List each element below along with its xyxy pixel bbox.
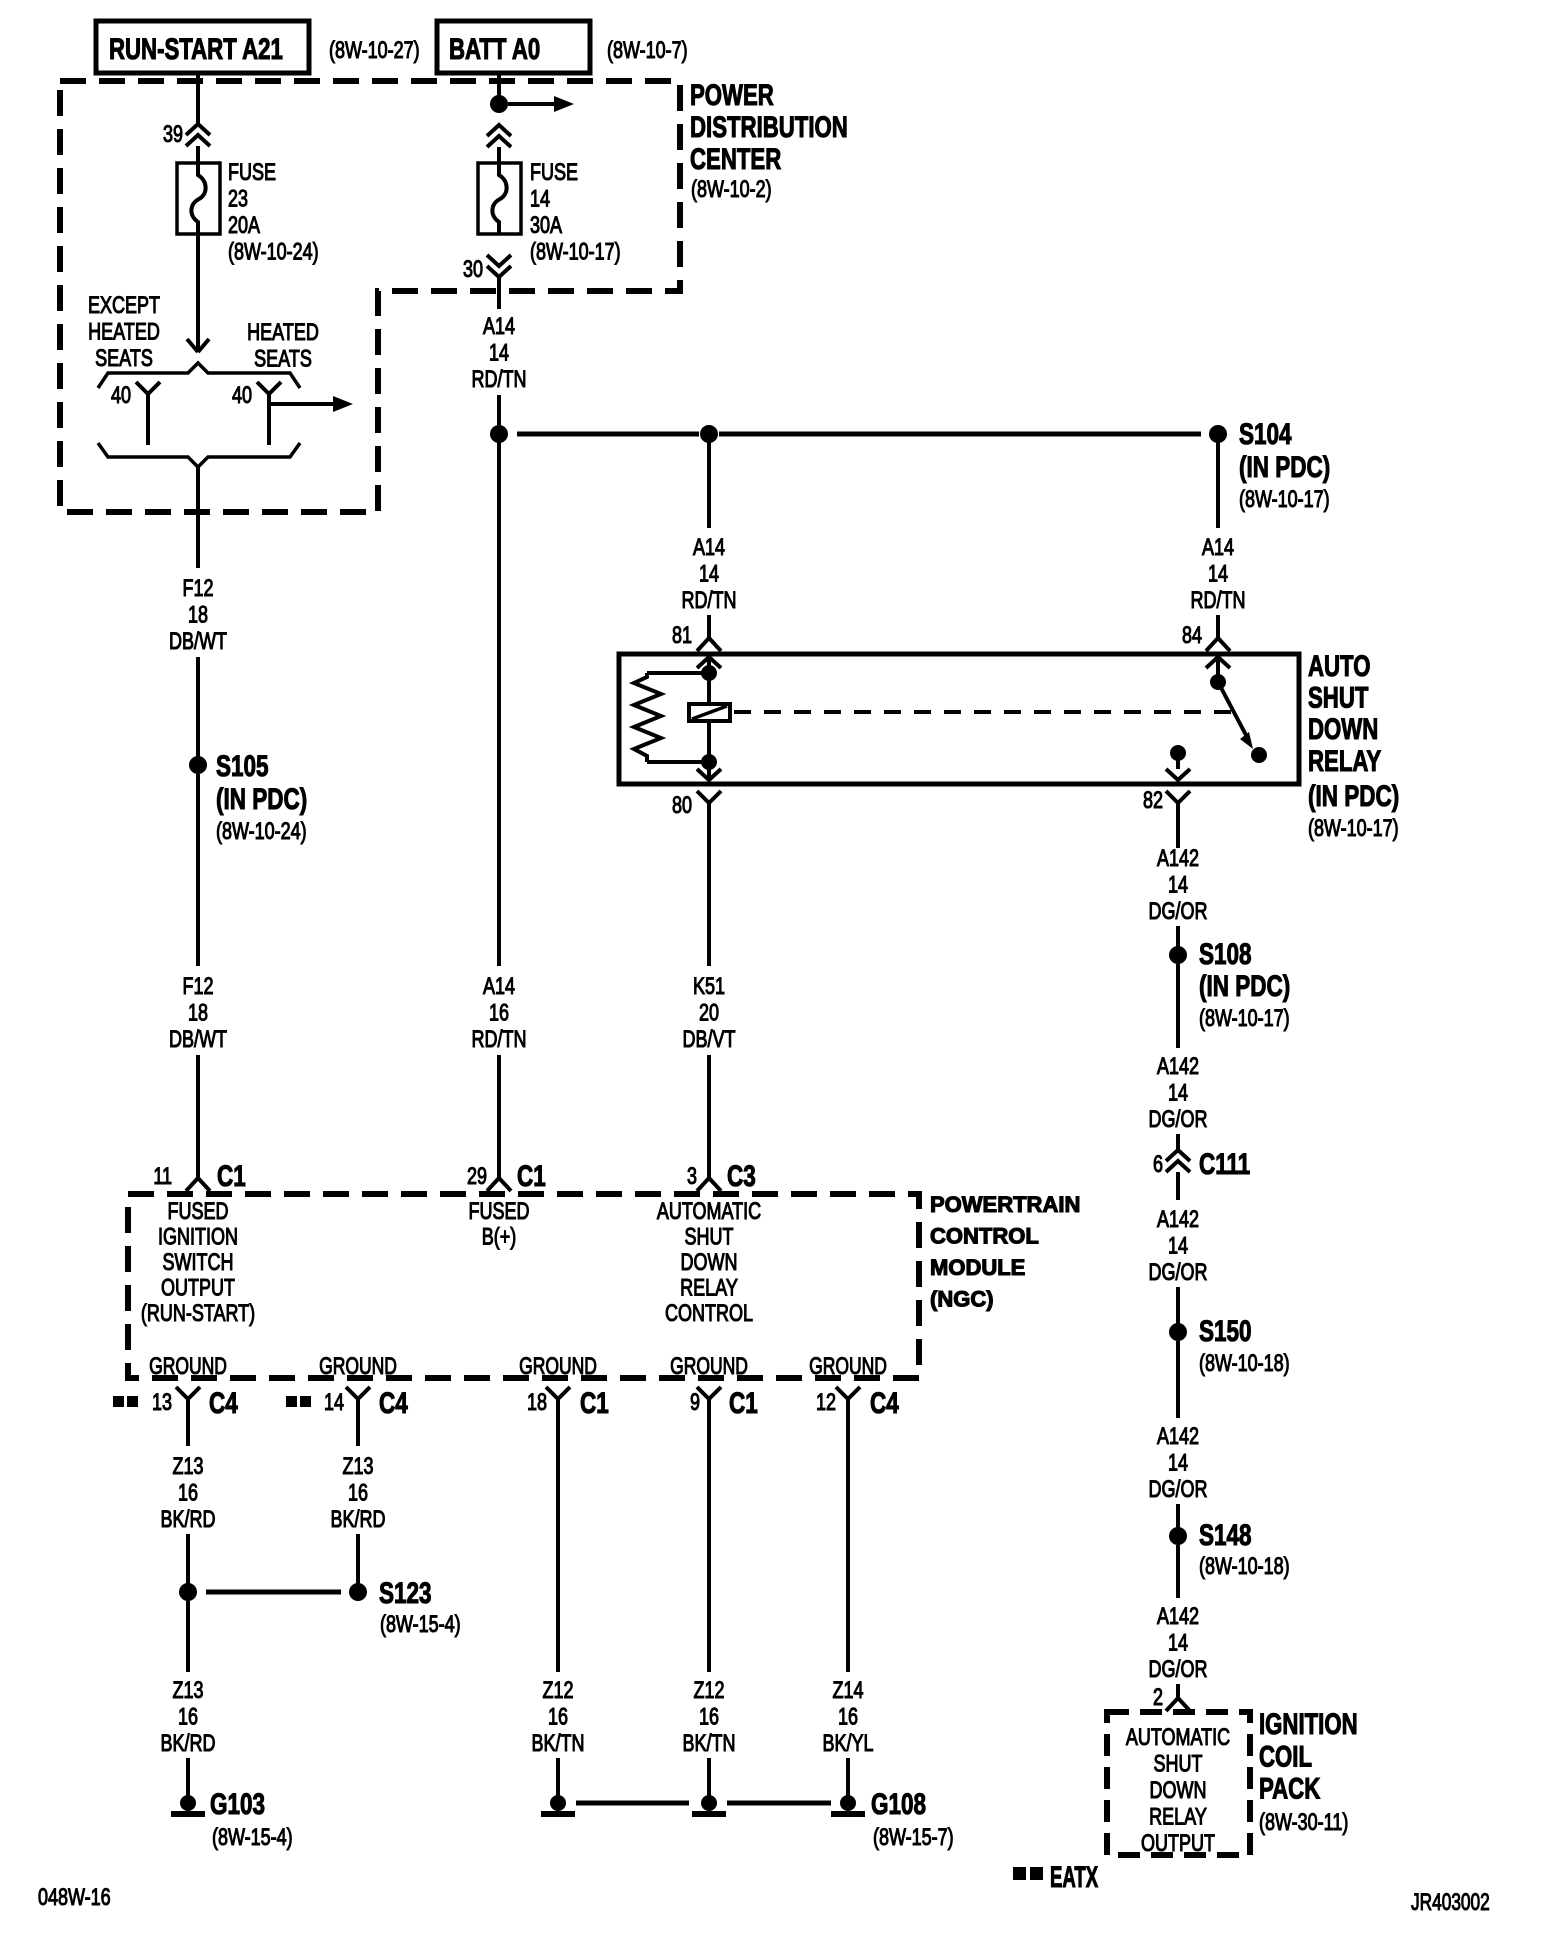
ground G108 middle bbox=[692, 1795, 726, 1814]
svg-text:DOWN: DOWN bbox=[681, 1250, 738, 1276]
svg-text:(8W-10-27): (8W-10-27) bbox=[329, 38, 420, 64]
wire G108 link bbox=[576, 1801, 831, 1806]
svg-text:BK/RD: BK/RD bbox=[161, 1507, 216, 1533]
svg-text:16: 16 bbox=[348, 1480, 368, 1506]
pin 11 connector fork bbox=[186, 1155, 210, 1191]
svg-text:14: 14 bbox=[1168, 1450, 1188, 1476]
EATX marker pin 13 bbox=[113, 1396, 124, 1407]
label Z13 16 BK/RD pin 14 bbox=[331, 1454, 386, 1533]
svg-text:14: 14 bbox=[324, 1390, 344, 1416]
junction dot A14 middle bbox=[700, 425, 718, 443]
svg-text:(8W-10-17): (8W-10-17) bbox=[1199, 1006, 1290, 1032]
svg-text:DB/WT: DB/WT bbox=[169, 629, 227, 655]
junction dot relay coil bottom bbox=[701, 754, 717, 770]
svg-text:IGNITION: IGNITION bbox=[1259, 1707, 1358, 1741]
pin 18 connector fork bbox=[546, 1387, 570, 1672]
svg-text:(8W-10-17): (8W-10-17) bbox=[1239, 487, 1330, 513]
svg-text:(8W-10-7): (8W-10-7) bbox=[607, 38, 688, 64]
label G103 (8W-15-4) bbox=[210, 1787, 293, 1851]
svg-text:S108: S108 bbox=[1199, 937, 1252, 971]
svg-text:A142: A142 bbox=[1157, 1604, 1199, 1630]
arrow heated seats branch bbox=[271, 396, 353, 412]
svg-text:20A: 20A bbox=[228, 213, 261, 239]
wire pin 9 to G108 bbox=[707, 1758, 711, 1796]
svg-text:POWER: POWER bbox=[690, 78, 774, 112]
svg-text:RD/TN: RD/TN bbox=[472, 367, 527, 393]
label AUTO SHUT DOWN RELAY (IN PDC) bbox=[1308, 649, 1399, 842]
wire S150 down bbox=[1176, 1341, 1180, 1418]
svg-text:GROUND: GROUND bbox=[670, 1353, 748, 1379]
svg-text:14: 14 bbox=[699, 561, 719, 587]
pin 3 connector fork bbox=[697, 1155, 721, 1191]
ignition coil pack dashed box bbox=[1107, 1712, 1250, 1855]
relay solenoid symbol bbox=[689, 704, 730, 721]
wire pin 18 to G108 bbox=[556, 1758, 560, 1796]
svg-text:23: 23 bbox=[228, 186, 248, 212]
svg-text:A142: A142 bbox=[1157, 1054, 1199, 1080]
svg-text:Z13: Z13 bbox=[172, 1454, 203, 1480]
svg-text:DG/OR: DG/OR bbox=[1149, 1260, 1208, 1286]
wire A14 to PCM pin 29 bbox=[497, 1055, 501, 1155]
svg-text:Z12: Z12 bbox=[693, 1678, 724, 1704]
svg-text:16: 16 bbox=[178, 1480, 198, 1506]
splice S104 bbox=[1209, 425, 1227, 443]
wire Z13 to S123 right bbox=[356, 1534, 360, 1584]
svg-text:C4: C4 bbox=[209, 1386, 238, 1420]
svg-text:A14: A14 bbox=[483, 314, 515, 340]
label A142 14 DG/OR fifth bbox=[1149, 1604, 1208, 1683]
svg-text:Z14: Z14 bbox=[832, 1678, 863, 1704]
svg-text:84: 84 bbox=[1182, 623, 1202, 649]
svg-text:RD/TN: RD/TN bbox=[472, 1027, 527, 1053]
svg-text:(8W-10-17): (8W-10-17) bbox=[530, 239, 621, 265]
svg-text:(IN PDC): (IN PDC) bbox=[1199, 969, 1290, 1003]
svg-text:C1: C1 bbox=[217, 1159, 246, 1193]
svg-text:16: 16 bbox=[548, 1704, 568, 1730]
connector 40 left fork bbox=[136, 382, 160, 445]
svg-text:C1: C1 bbox=[729, 1386, 758, 1420]
label A14 14 RD/TN top bbox=[472, 314, 527, 393]
svg-text:RD/TN: RD/TN bbox=[682, 588, 737, 614]
pin 2 connector fork bbox=[1166, 1692, 1190, 1711]
svg-text:OUTPUT: OUTPUT bbox=[161, 1275, 235, 1301]
svg-text:RUN-START A21: RUN-START A21 bbox=[109, 32, 283, 66]
svg-text:HEATED: HEATED bbox=[247, 320, 319, 346]
relay switch throw dot bbox=[1251, 747, 1267, 763]
wire bus to pin 81 label bbox=[707, 442, 711, 528]
wire connector 39 to fuse 23 bbox=[196, 146, 200, 163]
svg-text:11: 11 bbox=[153, 1164, 172, 1190]
wire K51 from relay pin 80 bbox=[707, 822, 711, 966]
wire C111 down bbox=[1176, 1172, 1180, 1200]
svg-text:16: 16 bbox=[489, 1000, 509, 1026]
wire RUN-START to connector 39 bbox=[196, 73, 200, 124]
svg-text:AUTOMATIC: AUTOMATIC bbox=[1126, 1725, 1230, 1751]
label A14 16 RD/TN lower bbox=[472, 974, 527, 1053]
svg-text:DG/OR: DG/OR bbox=[1149, 899, 1208, 925]
wire fuse 23 output with open arrowhead bbox=[187, 234, 209, 352]
label EXCEPT HEATED SEATS bbox=[88, 293, 160, 372]
svg-text:A14: A14 bbox=[483, 974, 515, 1000]
svg-text:GROUND: GROUND bbox=[149, 1353, 227, 1379]
relay coil wire bbox=[707, 673, 711, 762]
svg-text:14: 14 bbox=[1208, 561, 1228, 587]
pin 82 dot inside relay bbox=[1170, 745, 1186, 761]
svg-text:DOWN: DOWN bbox=[1308, 712, 1378, 746]
wire S123 link bbox=[206, 1590, 341, 1595]
ground G108 left bbox=[541, 1795, 575, 1814]
svg-text:(8W-10-17): (8W-10-17) bbox=[1308, 816, 1399, 842]
svg-text:OUTPUT: OUTPUT bbox=[1141, 1831, 1215, 1857]
relay actuation dashed line bbox=[734, 710, 1232, 714]
svg-text:(IN PDC): (IN PDC) bbox=[216, 782, 307, 816]
svg-text:40: 40 bbox=[232, 383, 252, 409]
label S104 (IN PDC) (8W-10-17) bbox=[1239, 417, 1330, 513]
svg-text:C4: C4 bbox=[379, 1386, 408, 1420]
svg-text:GROUND: GROUND bbox=[809, 1353, 887, 1379]
label A14 14 RD/TN pin 84 bbox=[1191, 535, 1246, 614]
svg-text:(8W-10-24): (8W-10-24) bbox=[216, 819, 307, 845]
svg-text:DISTRIBUTION: DISTRIBUTION bbox=[690, 110, 848, 144]
wire F12 to PCM pin 11 bbox=[196, 1055, 200, 1155]
svg-text:S105: S105 bbox=[216, 749, 269, 783]
svg-text:14: 14 bbox=[1168, 1630, 1188, 1656]
splice S105 bbox=[189, 756, 207, 774]
svg-text:81: 81 bbox=[672, 623, 692, 649]
svg-text:14: 14 bbox=[530, 186, 550, 212]
svg-text:B(+): B(+) bbox=[482, 1224, 516, 1250]
EATX marker pin 14 bbox=[286, 1396, 297, 1407]
wire to G103 bbox=[186, 1758, 190, 1796]
connector C111 double chevron bbox=[1166, 1150, 1190, 1172]
label Z13 16 BK/RD to ground bbox=[161, 1678, 216, 1757]
svg-text:C1: C1 bbox=[580, 1386, 609, 1420]
svg-text:F12: F12 bbox=[182, 576, 213, 602]
label AUTOMATIC SHUT DOWN RELAY CONTROL bbox=[657, 1199, 761, 1327]
svg-text:2: 2 bbox=[1153, 1685, 1163, 1711]
label HEATED SEATS bbox=[247, 320, 319, 373]
svg-text:A14: A14 bbox=[1202, 535, 1234, 561]
label G108 (8W-15-7) bbox=[871, 1787, 954, 1851]
svg-text:BK/RD: BK/RD bbox=[331, 1507, 386, 1533]
wire A142 to S108 bbox=[1176, 926, 1180, 947]
splice S150 bbox=[1169, 1323, 1187, 1341]
svg-text:048W-16: 048W-16 bbox=[38, 1885, 111, 1911]
svg-text:(IN PDC): (IN PDC) bbox=[1308, 779, 1399, 813]
label POWER DISTRIBUTION CENTER bbox=[690, 78, 848, 203]
svg-text:(8W-15-4): (8W-15-4) bbox=[380, 1612, 461, 1638]
svg-text:3: 3 bbox=[687, 1164, 697, 1190]
svg-text:GROUND: GROUND bbox=[519, 1353, 597, 1379]
wire to S150 bbox=[1176, 1287, 1180, 1324]
svg-text:EATX: EATX bbox=[1050, 1861, 1098, 1895]
splice S123 right dot bbox=[349, 1583, 367, 1601]
wire A14 to bus bbox=[497, 395, 501, 425]
svg-text:DOWN: DOWN bbox=[1150, 1778, 1207, 1804]
label F12 18 DB/WT lower bbox=[169, 974, 227, 1053]
svg-text:DG/OR: DG/OR bbox=[1149, 1107, 1208, 1133]
ground G108 right bbox=[831, 1795, 865, 1814]
svg-text:BATT A0: BATT A0 bbox=[449, 32, 540, 66]
brace lower bbox=[98, 443, 300, 467]
wire to connector C111 bbox=[1176, 1134, 1180, 1150]
svg-text:AUTOMATIC: AUTOMATIC bbox=[657, 1199, 761, 1225]
svg-text:(8W-15-7): (8W-15-7) bbox=[873, 1825, 954, 1851]
svg-text:BK/RD: BK/RD bbox=[161, 1731, 216, 1757]
svg-text:C4: C4 bbox=[870, 1386, 899, 1420]
connector 39 double chevron bbox=[186, 124, 210, 146]
wire F12 splice to label bbox=[196, 774, 200, 966]
label Z14 16 BK/YL pin 12 bbox=[822, 1678, 873, 1757]
svg-text:14: 14 bbox=[489, 340, 509, 366]
fuse 14 bbox=[478, 163, 521, 234]
svg-text:FUSE: FUSE bbox=[530, 160, 578, 186]
label S150 (8W-10-18) bbox=[1199, 1314, 1290, 1377]
svg-text:6: 6 bbox=[1153, 1152, 1163, 1178]
wire S148 down bbox=[1176, 1545, 1180, 1598]
wire Z13 to S123 left bbox=[186, 1534, 190, 1584]
pin 9 connector fork bbox=[697, 1387, 721, 1672]
svg-text:RELAY: RELAY bbox=[1308, 744, 1382, 778]
svg-text:13: 13 bbox=[152, 1390, 172, 1416]
label S148 (8W-10-18) bbox=[1199, 1518, 1290, 1580]
svg-text:AUTO: AUTO bbox=[1308, 649, 1370, 683]
svg-text:S123: S123 bbox=[379, 1576, 432, 1610]
svg-text:CENTER: CENTER bbox=[690, 142, 781, 176]
label F12 18 DB/WT upper bbox=[169, 576, 227, 655]
wire A142 from relay pin 82 bbox=[1176, 822, 1180, 848]
svg-text:Z12: Z12 bbox=[542, 1678, 573, 1704]
svg-text:S148: S148 bbox=[1199, 1518, 1252, 1552]
svg-text:RELAY: RELAY bbox=[680, 1275, 738, 1301]
label AUTOMATIC SHUT DOWN RELAY OUTPUT bbox=[1126, 1725, 1230, 1857]
relay switch arm bbox=[1218, 682, 1253, 749]
svg-text:FUSED: FUSED bbox=[168, 1199, 229, 1225]
svg-text:SEATS: SEATS bbox=[254, 346, 312, 372]
svg-text:S150: S150 bbox=[1199, 1314, 1252, 1348]
brace upper bbox=[98, 363, 300, 388]
label FUSED B(+) bbox=[469, 1199, 530, 1251]
relay switch common dot bbox=[1210, 674, 1226, 690]
svg-text:Z13: Z13 bbox=[172, 1678, 203, 1704]
svg-text:BK/TN: BK/TN bbox=[532, 1731, 585, 1757]
arrow BATT branch bbox=[508, 96, 574, 112]
svg-text:A142: A142 bbox=[1157, 1207, 1199, 1233]
pin 13 connector fork bbox=[176, 1387, 200, 1446]
svg-text:18: 18 bbox=[188, 602, 208, 628]
wire S104 to pin 84 label bbox=[1216, 442, 1220, 528]
svg-text:14: 14 bbox=[1168, 1080, 1188, 1106]
svg-text:A142: A142 bbox=[1157, 1424, 1199, 1450]
label POWERTRAIN CONTROL MODULE (NGC) bbox=[930, 1192, 1080, 1312]
splice S148 bbox=[1169, 1527, 1187, 1545]
svg-text:HEATED: HEATED bbox=[88, 319, 160, 345]
svg-text:(8W-10-24): (8W-10-24) bbox=[228, 239, 319, 265]
junction dot A14 left bbox=[490, 425, 508, 443]
connector box RUN-START A21 bbox=[96, 21, 309, 73]
label S108 (IN PDC) (8W-10-17) bbox=[1199, 937, 1290, 1032]
svg-text:18: 18 bbox=[188, 1000, 208, 1026]
ground G103 bbox=[171, 1795, 205, 1814]
bus wire A14 bbox=[517, 432, 1201, 437]
wire S108 down bbox=[1176, 964, 1180, 1048]
label A142 14 DG/OR first bbox=[1149, 846, 1208, 925]
svg-text:C1: C1 bbox=[517, 1159, 546, 1193]
wire F12 below braces bbox=[196, 467, 200, 568]
svg-text:CONTROL: CONTROL bbox=[665, 1301, 753, 1327]
label A142 14 DG/OR fourth bbox=[1149, 1424, 1208, 1503]
svg-text:DG/OR: DG/OR bbox=[1149, 1477, 1208, 1503]
svg-text:18: 18 bbox=[527, 1390, 547, 1416]
EATX legend marker bbox=[1013, 1867, 1026, 1880]
svg-text:F12: F12 bbox=[182, 974, 213, 1000]
wire S123 down bbox=[186, 1601, 190, 1672]
svg-text:20: 20 bbox=[699, 1000, 719, 1026]
svg-text:14: 14 bbox=[1168, 872, 1188, 898]
pin 29 connector fork bbox=[487, 1155, 511, 1191]
pin 81 connector fork bbox=[697, 615, 721, 651]
svg-text:G103: G103 bbox=[210, 1787, 265, 1821]
svg-text:BK/YL: BK/YL bbox=[822, 1731, 873, 1757]
pin 84 chevron inside relay bbox=[1206, 657, 1230, 675]
svg-text:16: 16 bbox=[699, 1704, 719, 1730]
label Z13 16 BK/RD pin 13 bbox=[161, 1454, 216, 1533]
svg-text:(NGC): (NGC) bbox=[930, 1287, 994, 1312]
label FUSE 23 20A (8W-10-24) bbox=[228, 160, 319, 266]
svg-text:40: 40 bbox=[111, 383, 131, 409]
svg-text:SHUT: SHUT bbox=[1308, 680, 1368, 714]
svg-text:A14: A14 bbox=[693, 535, 725, 561]
connector box BATT A0 bbox=[437, 21, 590, 73]
pin 80 connector fork bbox=[697, 791, 721, 822]
svg-text:RELAY: RELAY bbox=[1149, 1804, 1207, 1830]
label A142 14 DG/OR second bbox=[1149, 1054, 1208, 1133]
svg-text:S104: S104 bbox=[1239, 417, 1292, 451]
wire to S148 bbox=[1176, 1504, 1180, 1528]
svg-text:G108: G108 bbox=[871, 1787, 926, 1821]
label Z12 16 BK/TN pin 18 bbox=[532, 1678, 585, 1757]
label IGNITION COIL PACK (8W-30-11) bbox=[1259, 1707, 1358, 1836]
svg-text:(8W-10-18): (8W-10-18) bbox=[1199, 1351, 1290, 1377]
svg-text:82: 82 bbox=[1143, 788, 1163, 814]
pin 14 connector fork bbox=[346, 1387, 370, 1446]
powertrain control module dashed box bbox=[128, 1194, 919, 1378]
svg-text:16: 16 bbox=[838, 1704, 858, 1730]
wire K51 to PCM pin 3 bbox=[707, 1055, 711, 1155]
wire pin 12 to G108 bbox=[846, 1758, 850, 1796]
svg-text:RD/TN: RD/TN bbox=[1191, 588, 1246, 614]
connector chevrons below BATT junction bbox=[487, 125, 511, 147]
pin 80 chevron inside relay bbox=[697, 768, 721, 780]
svg-text:39: 39 bbox=[163, 122, 183, 148]
wire BATT feed bbox=[497, 73, 501, 97]
svg-text:80: 80 bbox=[672, 793, 692, 819]
svg-text:DG/OR: DG/OR bbox=[1149, 1657, 1208, 1683]
svg-text:(8W-10-2): (8W-10-2) bbox=[691, 177, 772, 203]
label S105 (IN PDC) (8W-10-24) bbox=[216, 749, 307, 845]
svg-text:(RUN-START): (RUN-START) bbox=[141, 1301, 255, 1327]
pin 82 connector fork bbox=[1166, 791, 1190, 822]
svg-text:9: 9 bbox=[690, 1390, 700, 1416]
svg-text:SEATS: SEATS bbox=[95, 346, 153, 372]
relay coil resistor bbox=[634, 673, 709, 762]
svg-text:SHUT: SHUT bbox=[1154, 1751, 1203, 1777]
svg-text:SHUT: SHUT bbox=[685, 1224, 734, 1250]
svg-text:(8W-15-4): (8W-15-4) bbox=[212, 1825, 293, 1851]
label FUSE 14 30A (8W-10-17) bbox=[530, 160, 621, 266]
fuse 23 bbox=[177, 163, 220, 234]
junction dot relay coil top bbox=[701, 665, 717, 681]
svg-text:IGNITION: IGNITION bbox=[158, 1224, 238, 1250]
wire to coil pack pin 2 bbox=[1176, 1684, 1180, 1692]
svg-text:CONTROL: CONTROL bbox=[930, 1224, 1039, 1249]
svg-text:29: 29 bbox=[467, 1164, 487, 1190]
svg-text:30A: 30A bbox=[530, 213, 563, 239]
pin 12 connector fork bbox=[836, 1387, 860, 1672]
svg-text:(8W-10-18): (8W-10-18) bbox=[1199, 1554, 1290, 1580]
svg-text:K51: K51 bbox=[693, 974, 725, 1000]
label A14 14 RD/TN pin 81 bbox=[682, 535, 737, 614]
svg-text:Z13: Z13 bbox=[342, 1454, 373, 1480]
svg-text:FUSED: FUSED bbox=[469, 1199, 530, 1225]
pin 84 connector fork bbox=[1206, 615, 1230, 651]
svg-text:FUSE: FUSE bbox=[228, 160, 276, 186]
junction dot BATT bbox=[490, 95, 508, 113]
label FUSED IGNITION SWITCH OUTPUT (RUN-START) bbox=[141, 1199, 255, 1327]
label A142 14 DG/OR third bbox=[1149, 1207, 1208, 1286]
svg-text:C3: C3 bbox=[727, 1159, 756, 1193]
wire A14 through PDC edge bbox=[497, 277, 501, 309]
svg-text:POWERTRAIN: POWERTRAIN bbox=[930, 1192, 1080, 1217]
svg-text:14: 14 bbox=[1168, 1233, 1188, 1259]
svg-text:(8W-30-11): (8W-30-11) bbox=[1259, 1810, 1348, 1836]
connector 40 right fork bbox=[257, 382, 281, 445]
svg-text:12: 12 bbox=[816, 1390, 836, 1416]
svg-text:A142: A142 bbox=[1157, 846, 1199, 872]
label K51 20 DB/VT bbox=[683, 974, 736, 1053]
relay box AUTO SHUT DOWN bbox=[619, 654, 1299, 784]
pin 81 chevron inside relay bbox=[697, 657, 721, 668]
svg-text:COIL: COIL bbox=[1259, 1739, 1312, 1773]
svg-text:SWITCH: SWITCH bbox=[163, 1250, 234, 1276]
wire to fuse 14 bbox=[497, 147, 501, 163]
svg-text:GROUND: GROUND bbox=[319, 1353, 397, 1379]
svg-text:30: 30 bbox=[463, 257, 483, 283]
svg-text:C111: C111 bbox=[1199, 1147, 1250, 1181]
power distribution center dashed outline bbox=[60, 81, 680, 512]
wire F12 to splice S105 bbox=[196, 657, 200, 757]
splice S108 bbox=[1169, 946, 1187, 964]
svg-text:PACK: PACK bbox=[1259, 1771, 1320, 1805]
wire A14 bus to label bbox=[497, 442, 501, 966]
svg-text:BK/TN: BK/TN bbox=[683, 1731, 736, 1757]
pin 82 chevron inside relay bbox=[1166, 753, 1190, 780]
connector 30 double chevron bbox=[487, 255, 511, 277]
svg-text:DB/WT: DB/WT bbox=[169, 1027, 227, 1053]
label Z12 16 BK/TN pin 9 bbox=[683, 1678, 736, 1757]
svg-text:JR403002: JR403002 bbox=[1411, 1889, 1490, 1915]
svg-text:EXCEPT: EXCEPT bbox=[88, 293, 160, 319]
svg-text:16: 16 bbox=[178, 1704, 198, 1730]
label S123 (8W-15-4) bbox=[379, 1576, 461, 1638]
svg-text:MODULE: MODULE bbox=[930, 1255, 1025, 1280]
svg-text:DB/VT: DB/VT bbox=[683, 1027, 736, 1053]
svg-text:(IN PDC): (IN PDC) bbox=[1239, 450, 1330, 484]
splice S123 left dot bbox=[179, 1583, 197, 1601]
